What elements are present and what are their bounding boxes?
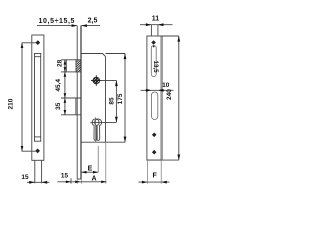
latch bolt hatched section (76, 60, 81, 72)
dim F line (139, 181, 170, 183)
svg-text:2,5: 2,5 (88, 18, 98, 25)
svg-text:11: 11 (152, 16, 160, 23)
deadbolt face (75, 98, 77, 115)
euro cylinder keyhole position 2 (95, 119, 102, 140)
dim 85 bottom arrow (115, 117, 118, 123)
svg-text:210: 210 (8, 98, 15, 109)
latch bolt body (66, 60, 77, 72)
svg-text:15: 15 (21, 174, 29, 181)
right plate outer rect (147, 36, 161, 160)
arrow 35 bottom (64, 110, 67, 115)
euro cylinder keyhole position 1 (92, 119, 99, 140)
svg-text:35: 35 (55, 102, 62, 110)
dim 210 vertical line (22, 43, 37, 151)
dim 10 right arrow (158, 89, 164, 92)
slot top rung (35, 56, 41, 58)
right plate lower slot (152, 92, 158, 120)
dim 15 left plate line (27, 181, 50, 183)
screw diamond bottom left plate (35, 149, 40, 154)
dimension 10,5÷15,5 line (37, 25, 77, 27)
svg-text:13,5: 13,5 (152, 61, 159, 74)
dim 10 left arrow (146, 89, 152, 92)
middle faceplate bottom cap (77, 178, 81, 180)
dim 175 top arrow (124, 54, 127, 60)
dim 175 line (124, 54, 126, 143)
svg-text:175: 175 (117, 93, 124, 104)
dim 240 line (178, 36, 180, 160)
dim F ext lines (147, 160, 149, 184)
dim chain vertical line 28/45,4/35 (64, 60, 66, 115)
left faceplate outer rect (32, 35, 44, 160)
svg-text:F: F (152, 173, 157, 180)
left plate inner slot right line (40, 54, 42, 142)
dim 175 bottom arrow (124, 137, 127, 143)
dim 210 top arrow (21, 43, 24, 48)
lock case bottom edge with leader to 175 (82, 141, 126, 143)
arrow 35 top (64, 98, 67, 103)
svg-text:85: 85 (109, 97, 116, 105)
dim 15 left arrow (29, 181, 35, 184)
arrow right of 10,5÷15,5 (72, 24, 78, 27)
right plate second right line (161, 36, 163, 160)
dim 240 bottom arrow (177, 155, 180, 161)
arrow 28 bottom (64, 67, 67, 72)
right plate upper slot (151, 46, 156, 77)
dimension 2,5 line (81, 25, 100, 27)
dim 240 top arrow (177, 36, 180, 42)
dim E left arrow (81, 171, 86, 174)
dim F left arrow (142, 181, 148, 184)
lock case right edge (105, 57, 107, 143)
slot top cap (34, 53, 41, 55)
middle faceplate right line (thick) (80, 26, 82, 179)
follower symbol (91, 75, 102, 86)
left plate lower extension left (34, 160, 36, 183)
right plate diamond hole mid (152, 133, 157, 138)
arrow A left inner (75, 181, 80, 184)
dim 210 bottom arrow (21, 146, 24, 151)
svg-text:E: E (88, 166, 93, 173)
right plate top leader to 240 (161, 35, 179, 37)
faceplate extension lines to bottom dims (76, 179, 78, 184)
arrow 15 right-pointing (66, 181, 71, 184)
right plate diamond screw top (151, 40, 156, 45)
dim 85 top arrow (115, 81, 118, 87)
right plate diamond hole low (152, 150, 157, 155)
right plate bottom leader to 240 (147, 159, 179, 161)
svg-text:28: 28 (56, 59, 63, 67)
keyhole horizontal centerline (90, 121, 116, 123)
arrow 45,4 top (64, 72, 67, 77)
dim A/15 baseline (58, 181, 107, 183)
lock case top edge (82, 54, 106, 57)
left plate inner slot left line (34, 54, 36, 142)
svg-text:15: 15 (61, 173, 69, 180)
keyhole vertical centerline (95, 117, 97, 142)
svg-text:A: A (91, 175, 96, 182)
case top leader to 175 (106, 53, 126, 55)
deadbolt top leader (61, 97, 81, 99)
latch bottom leader extension (61, 71, 66, 73)
case right extension down to A dim (105, 142, 107, 184)
svg-text:240: 240 (166, 89, 173, 100)
dim 11 left arrow (146, 23, 152, 26)
dim E line (81, 171, 98, 173)
dim 15 right arrow (42, 181, 48, 184)
left plate lower extension right (41, 160, 43, 183)
screw diamond top left plate (35, 40, 40, 45)
svg-text:10: 10 (162, 82, 170, 89)
tick at 71 (70, 178, 72, 183)
svg-text:45,4: 45,4 (55, 79, 62, 92)
slot bottom cap (34, 140, 41, 142)
slot bottom rung (35, 136, 41, 138)
dim F right arrow (161, 181, 167, 184)
arrow A right (101, 181, 106, 184)
deadbolt bottom leader (61, 114, 81, 116)
latch top leader (61, 59, 66, 61)
follower leader to 85 dim (102, 80, 117, 82)
dim E right arrow (93, 171, 98, 174)
dim 11 right arrow (158, 23, 164, 26)
dim 85 line (115, 81, 117, 123)
slot top dark dot (153, 45, 155, 47)
cylinder axis extension to E dim (97, 146, 99, 172)
arrow 28 top (64, 60, 67, 65)
middle faceplate left line (76, 26, 78, 179)
dim 11 ext lines (150, 25, 152, 36)
dim 10 line (141, 89, 174, 91)
arrow 45,4 bottom (64, 93, 67, 98)
arrow left of 2,5 (81, 24, 87, 27)
dim 11 line (140, 24, 173, 26)
svg-text:10,5÷15,5: 10,5÷15,5 (39, 18, 76, 25)
